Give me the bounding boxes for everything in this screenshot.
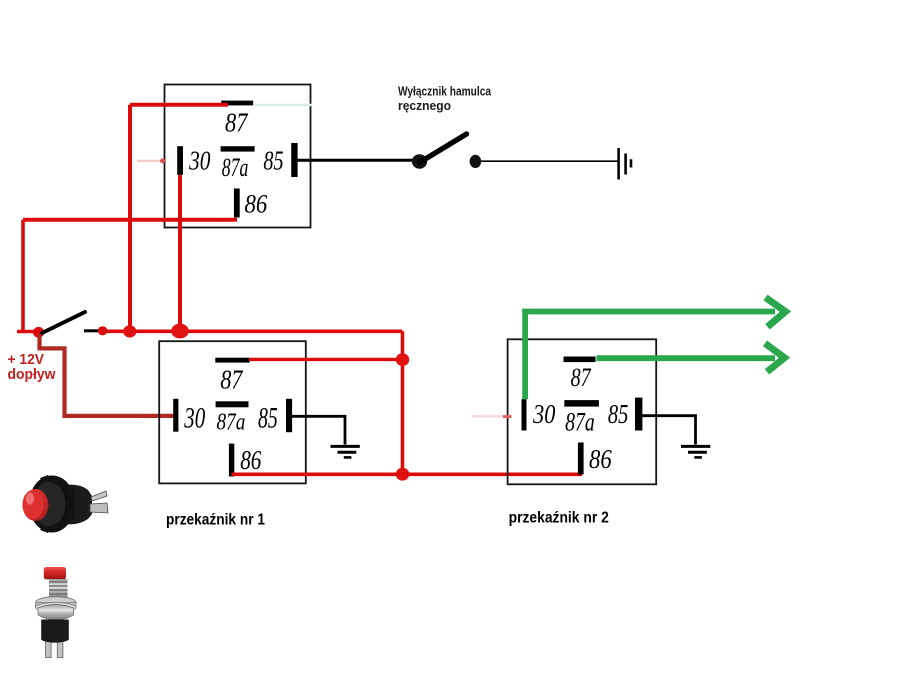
relay top pin 86 label <box>245 190 268 219</box>
label przekaźnik nr 2 <box>509 510 609 527</box>
node: bus junction upper <box>396 353 410 366</box>
relay R2 pin 85 bar <box>635 398 642 431</box>
wire black: relay R1 pin 85 to ground <box>292 416 345 444</box>
wire green: relay R2 pin 87 output right <box>597 355 776 361</box>
relay R1 box <box>159 341 306 483</box>
wire dark red: +12V dog-leg to relay 1 pin 30 <box>40 334 176 416</box>
svg-text:86: 86 <box>245 190 268 219</box>
ground (sideways) at handbrake switch <box>619 148 631 180</box>
svg-text:87a: 87a <box>217 409 246 435</box>
green arrowhead 2 <box>765 343 785 372</box>
feed switch contact line (black) <box>84 329 98 332</box>
photo: large red push button <box>23 475 109 533</box>
relay R2 pin 86 label <box>589 444 612 474</box>
label przekaźnik nr 1 <box>166 511 265 528</box>
relay R1 pin 86 bar <box>229 444 234 477</box>
svg-text:85: 85 <box>608 399 629 429</box>
relay R2 pin 87a label <box>565 408 595 437</box>
relay top pin 30 bar <box>177 146 183 175</box>
artifact: faint erased wire stub at top relay pin 30 <box>137 159 165 164</box>
svg-text:87a: 87a <box>222 153 249 182</box>
relay R1 pin 85 bar <box>286 399 292 432</box>
relay R1 pin 30 bar <box>173 399 178 432</box>
svg-text:86: 86 <box>589 444 612 474</box>
wire red: top relay pin 86 to left rail <box>23 218 237 222</box>
wire red: top relay pin 30 vertical drop x=180 <box>178 175 182 331</box>
node: contact dot red <box>98 326 108 335</box>
svg-text:dopływ: dopływ <box>8 366 56 383</box>
node: bus junction lower <box>396 468 410 481</box>
wire red: left rail vertical x=23 <box>21 220 25 332</box>
relay R1 pin 87 bar <box>215 358 249 363</box>
green arrowhead 1 <box>766 298 786 327</box>
wire green: relay R2 pin 30 output up <box>525 312 775 400</box>
relay R1 pin 87a label <box>217 409 246 435</box>
feed switch lever (black) <box>42 312 85 333</box>
relay R2 pin 30 label <box>532 399 555 429</box>
ground at relay R1 pin 85 <box>331 446 360 457</box>
relay R2 pin 86 bar <box>578 443 584 475</box>
svg-text:przekaźnik nr 2: przekaźnik nr 2 <box>509 510 609 527</box>
relay R2 pin 30 bar <box>522 399 527 430</box>
relay R1 pin 30 label <box>184 402 206 435</box>
label +12V dopływ <box>8 351 56 383</box>
wire red: feed to top relay pin 87 <box>130 103 228 107</box>
svg-text:30: 30 <box>188 146 211 176</box>
photo: small red push button <box>36 567 77 658</box>
wire red: relay R1 pin 86 to relay R2 pin 86 <box>232 472 583 476</box>
svg-text:30: 30 <box>532 399 555 429</box>
artifact: faint erased wire at relay R2 pin 30 <box>472 415 512 418</box>
handbrake switch pivot dot <box>412 154 427 168</box>
relay top box <box>165 85 311 228</box>
wire black: top relay pin 85 to switch <box>298 159 419 162</box>
relay R2 pin 85 label <box>608 399 629 429</box>
relay top pin 85 bar <box>291 143 297 177</box>
relay R2 pin 87a bar <box>564 400 599 407</box>
relay top pin 87 bar <box>221 101 253 106</box>
svg-text:87: 87 <box>225 107 249 137</box>
relay top pin 30 label <box>188 146 211 176</box>
handbrake switch lever <box>420 134 467 163</box>
svg-text:87: 87 <box>220 364 243 394</box>
relay R1 pin 87 label <box>220 364 243 394</box>
svg-text:86: 86 <box>240 445 262 475</box>
relay R1 pin 86 label <box>240 445 262 475</box>
ground at relay R2 pin 85 <box>681 446 710 457</box>
wire red: relay R1 pin 87 to bus <box>249 358 403 361</box>
node: +12V junction dot <box>33 327 44 338</box>
wire black thin: switch to chassis ground <box>480 160 618 162</box>
node: junction dot x=130 <box>123 325 136 337</box>
svg-text:Wyłącznik hamulca: Wyłącznik hamulca <box>398 84 492 99</box>
wire red: main horizontal rail y=331 <box>102 329 403 333</box>
svg-text:ręcznego: ręcznego <box>398 98 451 113</box>
label Wyłącznik hamulca ręcznego <box>398 84 492 114</box>
relay R1 pin 85 label <box>258 402 278 435</box>
node: junction blob x=180 <box>171 324 189 339</box>
svg-text:87: 87 <box>571 363 592 392</box>
artifact: faint cyan trace right of top 87 bar <box>254 104 312 106</box>
svg-text:85: 85 <box>258 402 278 435</box>
relay top pin 87a label <box>222 153 249 182</box>
svg-text:przekaźnik nr 1: przekaźnik nr 1 <box>166 511 265 528</box>
handbrake switch contact dot <box>470 155 482 168</box>
relay top pin 86 bar <box>234 189 240 218</box>
svg-text:85: 85 <box>263 146 283 176</box>
svg-text:87a: 87a <box>565 408 595 437</box>
wire red stub left of +12V dot <box>17 330 34 333</box>
relay R1 pin 87a bar <box>216 401 249 407</box>
relay R2 pin 87 label <box>571 363 592 392</box>
svg-text:30: 30 <box>184 402 206 435</box>
wire black: relay R2 pin 85 to ground <box>642 416 695 445</box>
wire red: vertical drop x=130 <box>128 105 132 332</box>
wire red: vertical bus x=402.5 <box>401 331 405 474</box>
relay R2 box <box>508 339 657 484</box>
relay top pin 85 label <box>263 146 283 176</box>
relay top pin 87 label <box>225 107 249 137</box>
relay top pin 87a bar <box>221 146 255 151</box>
relay R2 pin 87 bar <box>564 357 596 363</box>
